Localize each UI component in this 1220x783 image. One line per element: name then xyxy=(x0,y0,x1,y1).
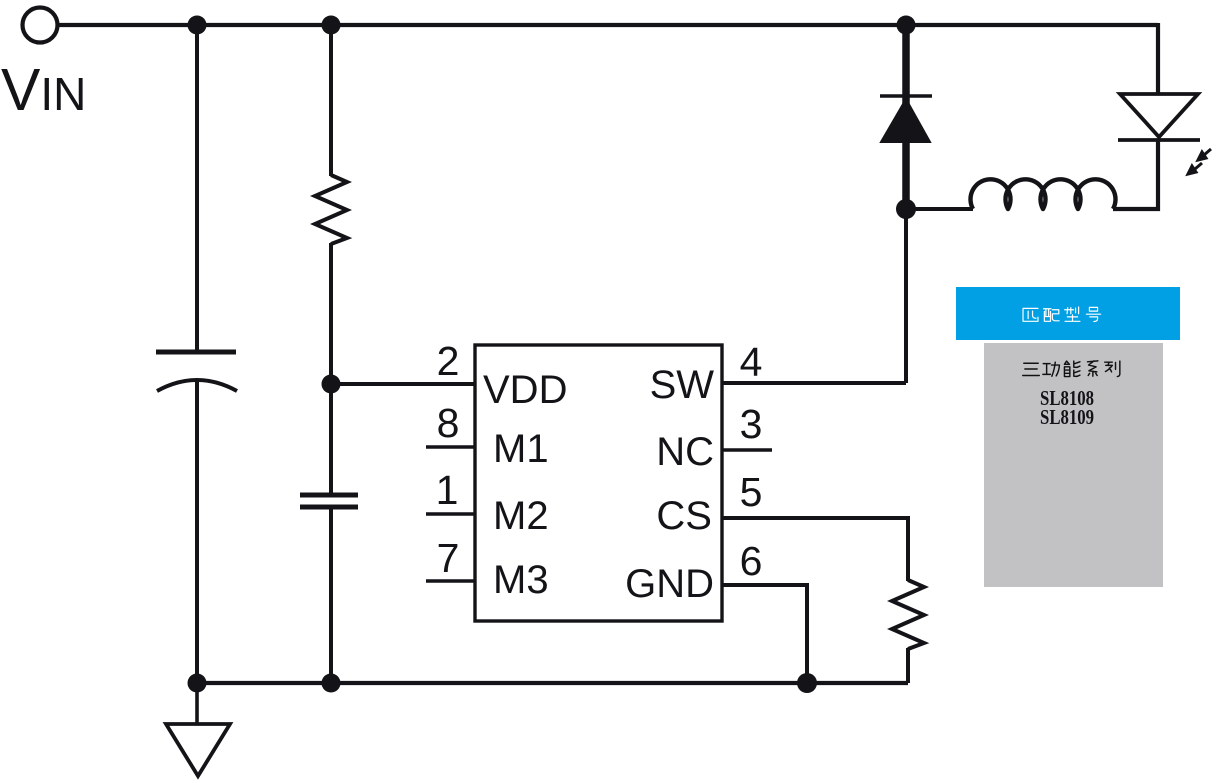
pin 7 stub xyxy=(426,579,475,583)
svg-text:3: 3 xyxy=(740,401,763,447)
svg-text:CS: CS xyxy=(656,494,712,538)
svg-text:GND: GND xyxy=(625,562,714,606)
svg-text:SL8109: SL8109 xyxy=(1040,405,1094,429)
IC U1 body xyxy=(475,345,722,621)
pin 8 stub xyxy=(426,445,475,449)
wire resistor branch middle xyxy=(329,243,333,494)
wire input capacitor branch lower xyxy=(195,381,199,683)
diode D1 triangle xyxy=(881,99,930,142)
inductor L1 xyxy=(971,179,1116,209)
info box body (gray) xyxy=(984,343,1163,587)
ground symbol triangle xyxy=(166,724,230,776)
info box header (blue) xyxy=(956,287,1180,340)
wire SW to riser xyxy=(722,381,906,385)
ground symbol stub xyxy=(195,683,199,724)
svg-text:M3: M3 xyxy=(493,558,549,602)
svg-text:7: 7 xyxy=(437,535,460,581)
node junction ground rail / GND return xyxy=(797,673,817,693)
LED emission arrows xyxy=(1188,149,1211,174)
node junction ground rail / C2 branch xyxy=(322,674,341,693)
svg-text:8: 8 xyxy=(437,400,460,446)
glyph 配 xyxy=(1044,309,1060,322)
svg-text:VDD: VDD xyxy=(483,368,567,412)
wire resistor branch upper xyxy=(329,25,333,176)
glyph 功 xyxy=(1043,362,1060,376)
svg-text:4: 4 xyxy=(740,339,763,385)
wire top rail xyxy=(58,23,1158,27)
glyph 匹 xyxy=(1023,308,1038,321)
wire R2 bottom to ground rail xyxy=(906,648,910,683)
wire inductor left lead xyxy=(906,207,973,211)
capacitor C2 upper plate xyxy=(300,493,358,498)
wire top-right corner drop to LED xyxy=(1156,23,1160,94)
diode D1 cathode bar xyxy=(880,94,932,98)
wire CS to sense resistor xyxy=(722,518,908,581)
node junction diode anode / inductor xyxy=(896,199,916,219)
wire ground rail xyxy=(197,681,908,685)
LED D2 triangle xyxy=(1120,94,1198,137)
glyph 系 xyxy=(1087,361,1097,376)
wire input capacitor branch upper xyxy=(195,25,199,350)
svg-text:NC: NC xyxy=(656,430,714,474)
glyph 型 xyxy=(1065,307,1080,321)
node junction top rail / resistor branch xyxy=(322,16,341,35)
svg-text:6: 6 xyxy=(740,538,763,584)
svg-text:1: 1 xyxy=(436,467,459,513)
node junction top rail / input capacitor branch xyxy=(188,16,207,35)
glyph 能 xyxy=(1064,361,1079,376)
svg-text:SW: SW xyxy=(650,363,715,407)
glyph 列 xyxy=(1105,361,1120,376)
pin 3 stub xyxy=(722,448,772,452)
wire VDD to IC pin 2 xyxy=(331,382,475,386)
resistor R1 xyxy=(315,175,347,244)
svg-text:M2: M2 xyxy=(493,494,549,538)
capacitor C1 curved bottom plate xyxy=(157,380,237,391)
wire SW riser up to diode node xyxy=(904,209,908,383)
node junction ground rail left xyxy=(188,674,207,693)
body title 三功能系列 (drawn glyphs) xyxy=(1023,361,1120,377)
LED D2 cathode bar xyxy=(1118,138,1200,142)
glyph 号 xyxy=(1086,307,1100,321)
capacitor C2 lower plate xyxy=(300,505,358,510)
svg-text:2: 2 xyxy=(437,338,460,384)
resistor R2 current sense xyxy=(892,580,924,649)
diode D1 stem (thick) xyxy=(902,25,910,209)
capacitor C1 input electrolytic top plate xyxy=(156,350,236,355)
input terminal VIN xyxy=(23,8,58,43)
glyph 三 xyxy=(1023,363,1040,375)
svg-text:5: 5 xyxy=(740,469,763,515)
wire inductor right lead up to LED xyxy=(1113,140,1158,209)
node junction top rail / diode cathode branch xyxy=(897,16,916,35)
wire GND pin return xyxy=(722,585,807,683)
node junction VDD wire xyxy=(322,375,341,394)
wire capacitor C2 lower xyxy=(329,508,333,683)
svg-text:M1: M1 xyxy=(493,427,549,471)
pin 1 stub xyxy=(426,512,475,516)
header text 匹配型号 (drawn glyphs) xyxy=(1023,307,1101,321)
